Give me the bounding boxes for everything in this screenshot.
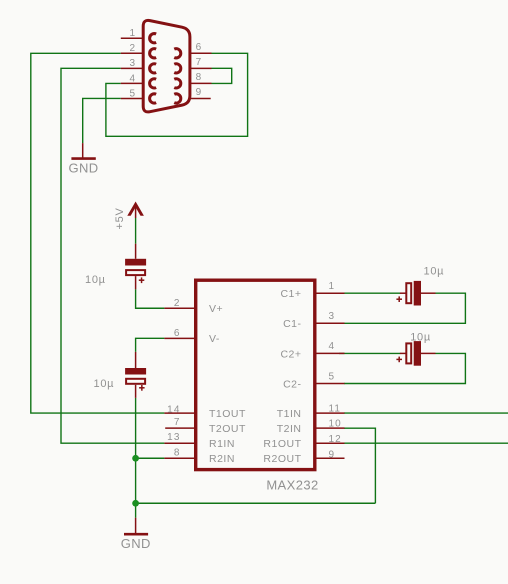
svg-text:9: 9	[329, 449, 336, 460]
U1 pin 14 T1OUT	[164, 412, 195, 414]
svg-text:T1IN: T1IN	[277, 408, 302, 420]
X1 pin 9	[191, 97, 211, 99]
wire C4 to GND2	[135, 398, 137, 518]
svg-text:V-: V-	[209, 333, 220, 345]
svg-text:+5V: +5V	[114, 208, 126, 230]
wire U1 R1OUT net to edge	[344, 442, 508, 444]
svg-text:13: 13	[167, 432, 180, 443]
svg-text:8: 8	[196, 72, 203, 83]
svg-text:7: 7	[196, 57, 203, 68]
X1 pin 8	[191, 82, 212, 84]
U1 pin 8 R2IN	[164, 457, 195, 459]
svg-text:1: 1	[329, 281, 336, 292]
svg-text:1: 1	[130, 28, 137, 39]
wire DB9 pin2 net to U1 T1OUT	[31, 53, 165, 413]
X1 contact pin7	[174, 64, 181, 73]
wire U1 C2+ to cap C2	[339, 352, 400, 354]
X1 contact pin5	[150, 94, 157, 103]
svg-text:R1OUT: R1OUT	[263, 438, 301, 450]
X1 pin 6	[191, 52, 212, 54]
svg-text:T2OUT: T2OUT	[209, 423, 246, 435]
svg-text:6: 6	[196, 42, 203, 53]
svg-text:14: 14	[167, 405, 180, 416]
svg-text:4: 4	[329, 341, 336, 352]
X1 pin 3	[121, 67, 142, 69]
X1 contact pin6	[174, 49, 181, 58]
wire cap C2 to U1 C2-	[344, 353, 465, 383]
svg-text:MAX232: MAX232	[266, 478, 318, 493]
U1 pin 9 R2OUT	[315, 457, 345, 459]
X1 contact pin1	[150, 34, 157, 43]
wire bottom GND bus	[136, 502, 376, 504]
capacitor C4 10u	[135, 352, 137, 368]
svg-text:R2IN: R2IN	[209, 453, 235, 465]
X1 contact pin8	[174, 79, 181, 88]
svg-text:5: 5	[130, 88, 137, 99]
svg-text:10: 10	[329, 419, 342, 430]
wire U1 V- to C4	[136, 338, 165, 352]
svg-text:8: 8	[174, 447, 181, 458]
svg-text:2: 2	[174, 298, 181, 309]
svg-text:6: 6	[174, 328, 181, 339]
svg-text:R1IN: R1IN	[209, 438, 235, 450]
U1 pin 7 T2OUT	[165, 427, 196, 429]
svg-text:4: 4	[130, 73, 137, 84]
U1 pin 5 C2-	[315, 383, 345, 385]
svg-text:11: 11	[329, 404, 342, 415]
ground symbol GND1	[82, 143, 84, 158]
svg-text:V+: V+	[209, 303, 223, 315]
capacitor C1 10u	[400, 292, 406, 294]
capacitor C2 10u	[400, 352, 406, 354]
wire U1 T2IN net	[344, 428, 375, 503]
junction at R2IN/GND net	[132, 455, 139, 462]
X1 pin 1	[121, 37, 142, 39]
svg-text:2: 2	[130, 43, 137, 54]
wire DB9 pin5 net to GND1	[83, 98, 121, 143]
wire GND net to U1 R2IN	[136, 457, 165, 459]
ground symbol GND2	[135, 518, 137, 534]
wire U1 C1+ to cap C1	[339, 292, 400, 294]
svg-text:R2OUT: R2OUT	[263, 453, 301, 465]
svg-text:C2+: C2+	[280, 348, 301, 360]
svg-text:7: 7	[174, 417, 181, 428]
wire cap C1 to U1 C1-	[344, 293, 465, 323]
svg-text:10µ: 10µ	[85, 274, 106, 286]
U1 pin 3 C1-	[315, 322, 345, 324]
connector X1 DB9 body	[143, 20, 190, 112]
wire U1 T1IN net to edge	[344, 412, 508, 414]
X1 contact pin4	[150, 79, 157, 88]
IC U1 MAX232 body	[196, 280, 315, 469]
X1 pin 4	[121, 82, 142, 84]
U1 pin 2 V+	[164, 307, 195, 309]
U1 pin 13 R1IN	[164, 442, 195, 444]
svg-text:10µ: 10µ	[410, 331, 431, 343]
svg-text:C2-: C2-	[283, 378, 301, 390]
svg-text:9: 9	[196, 87, 203, 98]
svg-text:GND: GND	[68, 161, 98, 176]
svg-text:10µ: 10µ	[94, 378, 115, 390]
supply symbol +5V	[127, 202, 144, 216]
X1 contact pin3	[150, 64, 157, 73]
capacitor C3 10u	[135, 244, 137, 259]
wire DB9 pin3 net to U1 R1IN	[61, 68, 164, 443]
svg-text:3: 3	[130, 58, 137, 69]
X1 pin 2	[121, 52, 142, 54]
U1 pin 6 V-	[164, 337, 195, 339]
svg-text:10µ: 10µ	[424, 266, 445, 278]
svg-text:T1OUT: T1OUT	[209, 408, 246, 420]
wire C3 to U1 V+	[136, 289, 165, 308]
svg-text:12: 12	[329, 434, 342, 445]
U1 pin 4 C2+	[315, 352, 345, 354]
X1 contact pin9	[174, 94, 181, 103]
U1 pin 11 T1IN	[315, 412, 345, 414]
wire DB9 pin7 to pin8 jumper	[212, 68, 232, 83]
junction at GND bus	[132, 500, 139, 507]
svg-text:GND: GND	[121, 536, 151, 551]
wire +5V supply to C3	[135, 218, 137, 244]
wire DB9 pin4 to pin6 loop	[106, 53, 248, 136]
X1 contact pin2	[150, 49, 157, 58]
U1 pin 12 R1OUT	[315, 442, 345, 444]
svg-text:T2IN: T2IN	[277, 423, 302, 435]
X1 pin 7	[191, 67, 212, 69]
U1 pin 1 C1+	[315, 292, 345, 294]
X1 pin 5	[121, 97, 142, 99]
U1 pin 10 T2IN	[315, 427, 345, 429]
svg-text:C1-: C1-	[283, 318, 301, 330]
svg-text:5: 5	[329, 371, 336, 382]
svg-text:3: 3	[329, 311, 336, 322]
svg-text:C1+: C1+	[280, 288, 301, 300]
